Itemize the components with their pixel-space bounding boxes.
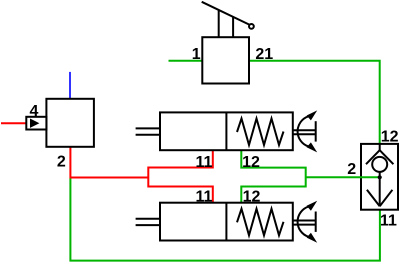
wire: red stub into V2 pilot port 4: [1, 122, 26, 124]
label: V3 port 2: [347, 161, 356, 178]
lever of valve V1: [202, 2, 254, 37]
svg-text:2: 2: [57, 153, 66, 170]
label: V2 port 2: [57, 153, 66, 170]
A1 spring: [237, 119, 284, 146]
node: junction dot at check valve port 2: [378, 175, 382, 179]
check valve V3 internals: [366, 144, 393, 206]
A2 left port stubs: [136, 219, 160, 225]
wire: red fork vertical: [147, 167, 149, 188]
label: V2 port 4: [29, 103, 38, 120]
wire: blue stub above V2: [69, 72, 71, 99]
svg-text:11: 11: [195, 154, 212, 171]
A1 right swing actuator: [293, 110, 317, 152]
label: A2 port 11: [195, 189, 212, 206]
label: A1 port 12: [242, 154, 260, 171]
label: V1 port 1: [192, 46, 201, 63]
wire: green net linking valve ports 12 of A1 and A2: [241, 150, 305, 202]
svg-text:4: 4: [29, 103, 38, 120]
svg-text:11: 11: [380, 212, 397, 229]
label: V1 port 21: [255, 46, 273, 63]
svg-text:12: 12: [381, 128, 399, 145]
wire: green net bottom from node under V2 port 2 to check valve bottom port 11: [70, 178, 380, 260]
wire: green stub port 1 of valve V1: [169, 60, 203, 62]
wire: red branch to A2 port 11: [148, 187, 213, 203]
actuator module A2 body: [160, 203, 293, 241]
A2 right swing actuator: [293, 201, 317, 243]
wire: green branch into check valve port 2: [306, 176, 380, 178]
svg-text:11: 11: [195, 189, 212, 206]
label: V3 port 12: [381, 128, 399, 145]
pilot valve V2 body: [46, 99, 94, 147]
svg-text:1: 1: [192, 46, 201, 63]
label: V3 port 11: [380, 212, 397, 229]
pilot actuator of V2: [26, 117, 46, 130]
A1 left port stubs: [136, 128, 160, 134]
wire: red net from V2 port 2: [70, 147, 148, 178]
svg-text:21: 21: [255, 46, 273, 63]
svg-text:2: 2: [347, 161, 356, 178]
label: A1 port 11: [195, 154, 212, 171]
actuator module A1 body: [160, 112, 293, 150]
check valve V3 body: [361, 144, 398, 210]
wire: red branch to A1 port 11: [148, 150, 213, 167]
svg-text:12: 12: [242, 154, 260, 171]
svg-text:12: 12: [243, 189, 261, 206]
A2 spring: [237, 209, 284, 236]
wire: green net from V1 port 21 to check valve top port 12: [249, 61, 380, 145]
manual lever valve V1 body: [202, 37, 249, 83]
label: A2 port 12: [243, 189, 261, 206]
